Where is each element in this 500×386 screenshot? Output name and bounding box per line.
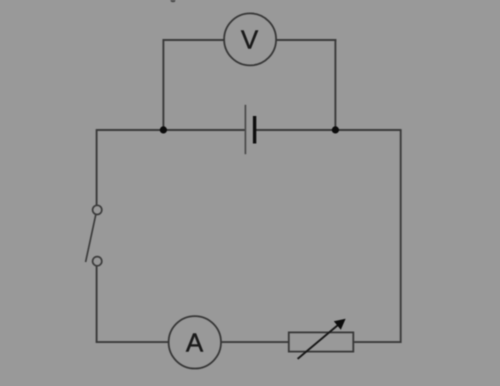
wire: voltmeter branch right vertical [334,39,336,130]
variable resistor (rheostat) body [289,332,354,351]
wire: main horizontal right of battery [255,129,401,131]
wire: voltmeter branch top-left horizontal [163,39,224,41]
stray mark (cropped glyph) at top edge [170,0,175,2]
variable resistor arrow head [334,319,346,330]
wire: bottom horizontal ammeter to rheostat [221,341,288,343]
svg-text:A: A [186,328,204,358]
wire: voltmeter branch top-right horizontal [277,39,337,41]
ammeter A [169,316,221,368]
battery cell: long plate (+) [244,105,246,154]
wire: left vertical below switch [96,266,98,342]
node junction dot right [332,126,339,133]
voltmeter V [224,13,276,65]
battery cell: short thick plate (-) [253,116,256,144]
switch: top contact circle [93,205,102,214]
switch: bottom contact circle [93,257,102,266]
switch: open lever arm [86,215,96,262]
node junction dot left [160,126,167,133]
wire: right vertical [400,129,402,343]
wire: voltmeter branch left vertical [162,39,164,130]
wire: bottom horizontal right of rheostat [353,341,400,343]
wire: left vertical above switch [96,129,98,205]
wire: bottom horizontal left of ammeter [96,341,168,343]
wire: main horizontal left of battery [97,129,246,131]
svg-text:V: V [241,25,259,55]
variable resistor arrow shaft [298,325,339,359]
